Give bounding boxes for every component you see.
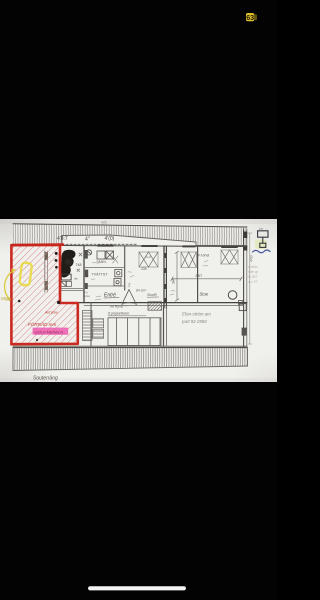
svg-text:F.Vind: F.Vind bbox=[198, 253, 210, 258]
door jamb box right bbox=[239, 304, 246, 311]
wall bathroom left bbox=[83, 246, 85, 303]
rooms top wall under band bbox=[62, 246, 247, 247]
plus marks right of blob bbox=[77, 253, 82, 272]
yellow arrow bbox=[5, 269, 15, 299]
black dot step corner bbox=[57, 301, 60, 304]
svg-text:Vägg: Vägg bbox=[1, 296, 11, 301]
dim line horizontal big room bbox=[171, 277, 242, 281]
svg-text:4'60: 4'60 bbox=[250, 255, 254, 262]
entry door swings bbox=[122, 290, 137, 305]
svg-text:897: 897 bbox=[196, 273, 203, 278]
circle fixture with cross bbox=[86, 250, 91, 255]
photo edge shading bbox=[0, 219, 277, 382]
svg-text:GOLV MEDELN: GOLV MEDELN bbox=[35, 329, 64, 334]
red marker outline bbox=[11, 245, 77, 344]
photo background bbox=[0, 219, 277, 382]
key symbol dark top bbox=[258, 231, 268, 248]
dimension text row bbox=[57, 236, 115, 243]
staircase stack bbox=[83, 311, 93, 341]
dashed setback line bbox=[62, 243, 137, 245]
wall bathroom right bbox=[124, 246, 126, 290]
svg-text:Stue: Stue bbox=[200, 291, 209, 296]
svg-text:part 92 2900: part 92 2900 bbox=[181, 319, 207, 324]
svg-text:8 proportioner: 8 proportioner bbox=[108, 312, 130, 316]
bathroom divider upper bbox=[84, 267, 125, 269]
window X pair room3 bbox=[139, 252, 158, 267]
red room hatch fill bbox=[12, 246, 77, 344]
lower wall left bbox=[90, 303, 92, 347]
right outer wall bbox=[244, 229, 247, 348]
svg-text:fönst: fönst bbox=[145, 255, 151, 259]
PLAN GROUP bbox=[1, 221, 271, 382]
svg-text:SovR: SovR bbox=[147, 292, 157, 297]
lower wall mid double bbox=[166, 306, 168, 347]
yellow highlight rect bbox=[19, 262, 32, 285]
svg-text:Souterräng: Souterräng bbox=[33, 375, 58, 381]
blue squiggle bbox=[253, 250, 271, 253]
blob room divider bbox=[61, 289, 84, 291]
yellow count badge bbox=[246, 13, 257, 22]
svg-text:Auf prov.: Auf prov. bbox=[44, 310, 58, 314]
window X pair big room bbox=[221, 250, 238, 264]
wall big-room left bbox=[197, 247, 199, 303]
svg-text:µm: µm bbox=[259, 226, 264, 230]
pencil wall highlighted bbox=[45, 251, 48, 292]
svg-text:TVÄTTST: TVÄTTST bbox=[92, 273, 109, 277]
svg-text:4'8:7: 4'8:7 bbox=[57, 236, 68, 242]
svg-text:die: die bbox=[74, 276, 78, 280]
staircase striped box B bbox=[93, 329, 104, 338]
svg-text:fv 307: fv 307 bbox=[248, 275, 257, 279]
window block right wall bbox=[242, 328, 247, 336]
fixture box below blob bbox=[62, 274, 72, 280]
staircase striped box A bbox=[93, 319, 104, 328]
svg-text:lucka: lucka bbox=[83, 294, 90, 298]
svg-text:335: 335 bbox=[141, 267, 147, 271]
svg-text:4'': 4'' bbox=[85, 237, 90, 243]
highlighter glow on symbol bbox=[255, 240, 267, 250]
svg-text:4(0): 4(0) bbox=[101, 221, 107, 225]
label efansion faint bbox=[181, 312, 211, 324]
top fixture rect crossed bbox=[106, 251, 114, 259]
boiler circle big room bbox=[228, 291, 237, 300]
top fixture rect plain bbox=[97, 251, 105, 259]
mid horizontal wall bbox=[78, 303, 247, 306]
lower wall mid bbox=[163, 306, 165, 347]
bottom wall band bbox=[13, 348, 248, 371]
black dot left bbox=[18, 300, 21, 303]
garage door panels bbox=[108, 318, 161, 346]
svg-text:vid Rymd →: vid Rymd → bbox=[110, 304, 127, 308]
top wall band bbox=[13, 224, 247, 246]
small X column bbox=[113, 256, 118, 263]
window sill segments bbox=[98, 246, 237, 247]
bathroom divider lower bbox=[84, 285, 125, 287]
svg-text:748: 748 bbox=[76, 263, 82, 267]
wall-mounted cupboards bbox=[85, 250, 89, 289]
sink square bbox=[114, 279, 121, 286]
lower rooms bottom wall bbox=[13, 345, 247, 347]
svg-text:4'(0): 4'(0) bbox=[105, 236, 115, 242]
wc square bbox=[115, 269, 122, 276]
svg-text:PANN.: PANN. bbox=[97, 260, 107, 264]
right wall corner blocks bbox=[243, 232, 247, 251]
svg-text:3M: 3M bbox=[172, 279, 176, 284]
photo corner shading defs bbox=[0, 0, 1, 1]
svg-text:4 c 37: 4 c 37 bbox=[248, 280, 257, 284]
window X pair room4 bbox=[181, 252, 196, 267]
black blob fixture bbox=[55, 250, 76, 278]
svg-text:84 cm²: 84 cm² bbox=[136, 289, 147, 293]
small square by boiler bbox=[238, 301, 242, 305]
home indicator bar bbox=[88, 586, 186, 590]
black dot bottom bbox=[36, 339, 38, 341]
svg-text:FÖRRÅD mm: FÖRRÅD mm bbox=[28, 321, 56, 327]
red outline overdraw top bbox=[12, 243, 63, 246]
svg-text:63: 63 bbox=[246, 15, 254, 22]
wall thick center bbox=[164, 246, 167, 308]
right margin pencil note bbox=[248, 265, 258, 284]
label lucka bbox=[83, 290, 90, 297]
label proportioner bbox=[108, 312, 146, 316]
chimney hatched block bbox=[148, 302, 162, 310]
fixture boxes pair bbox=[61, 281, 71, 286]
pink highlight bar bbox=[33, 328, 69, 335]
dim line vertical room4 bbox=[175, 251, 179, 301]
right dim line bbox=[248, 233, 252, 344]
svg-text:Efan-ström am: Efan-ström am bbox=[182, 312, 211, 317]
pencil scribbles bbox=[91, 261, 208, 301]
